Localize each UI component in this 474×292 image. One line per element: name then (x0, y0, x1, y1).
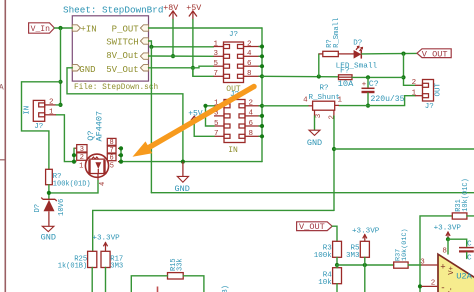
svg-text:A: A (0, 84, 4, 93)
wire R_Shunt pin3 to ground (314, 116, 316, 130)
node junctions on rail at OUT pins (260, 44, 264, 78)
svg-text:-: - (440, 283, 445, 292)
svg-text:2: 2 (412, 79, 417, 87)
svg-text:6: 6 (247, 60, 252, 68)
svg-text:R?: R? (320, 84, 329, 92)
node junction gate network (47, 191, 51, 195)
wire loop box right (183, 276, 204, 292)
svg-text:C: C (467, 254, 472, 262)
node junction R5 bottom (363, 263, 367, 267)
node junction cap bottom (366, 104, 370, 108)
svg-text:1: 1 (49, 109, 54, 117)
svg-text:10A: 10A (338, 79, 354, 89)
svg-text:V_OUT: V_OUT (422, 49, 448, 59)
node junction sense branch (332, 147, 336, 151)
node junction at V_In (58, 26, 62, 30)
node junction +5V on 5V_Out (191, 66, 195, 70)
svg-text:3M3: 3M3 (346, 252, 360, 260)
node junction at fuse rail (401, 75, 405, 79)
global label V_OUT top (417, 49, 451, 60)
resistor R3 100k (314, 241, 342, 265)
svg-text:+3.3VP: +3.3VP (352, 227, 380, 235)
svg-text:+3.3VP: +3.3VP (92, 235, 120, 243)
svg-text:3M3: 3M3 (110, 262, 123, 270)
svg-text:2: 2 (329, 115, 337, 120)
wire feedback vertical (420, 216, 452, 292)
svg-text:4: 4 (99, 182, 107, 186)
node junction +8V on 8V_Out (171, 54, 175, 58)
wire V_OUT to R3 (332, 226, 337, 241)
node junction R_Small branch (317, 74, 321, 78)
svg-text:2: 2 (80, 154, 84, 162)
wire drain rail bottom horizontal (121, 161, 262, 163)
resistor R5 3M3 (346, 241, 369, 265)
svg-text:7: 7 (214, 130, 219, 138)
svg-text:GND: GND (41, 233, 56, 243)
node junction V_In branch left (58, 80, 62, 84)
connector J? OUT (right edge) (412, 79, 443, 111)
wire OUT J pin2 (404, 84, 416, 86)
svg-text:IN: IN (228, 146, 238, 155)
connector J? OUT (upper) (213, 31, 259, 94)
svg-text:R_Shunt: R_Shunt (309, 94, 341, 102)
connector J? IN (lower) (214, 91, 260, 155)
ground symbol mid (175, 162, 190, 195)
wire fuse to cap node and onward (352, 76, 404, 78)
wire right rail vertical (261, 28, 263, 162)
wire R37 to op-amp pin3 (408, 264, 421, 266)
svg-text:2: 2 (431, 280, 436, 288)
wire sense rail to R25 (93, 210, 334, 251)
global label V_In (29, 23, 55, 34)
svg-text:+3.3VP: +3.3VP (434, 225, 462, 233)
svg-text:2: 2 (49, 99, 54, 107)
wire switch sense rail to right edge (151, 192, 474, 194)
svg-text:SWITCH: SWITCH (106, 37, 138, 47)
wire +5V to connector pin7 (193, 68, 214, 77)
connector J? IN (left edge) (24, 99, 57, 131)
wire transistor drain tie (120, 148, 122, 161)
power symbol +5V (186, 4, 201, 20)
resistor R? R_Small (319, 18, 354, 57)
component lead stub at bottom edge (157, 287, 159, 292)
wire divider node to R37 (337, 264, 394, 266)
wire left connector pin2 to V_In vertical (56, 104, 61, 106)
svg-text:C?: C? (369, 80, 379, 89)
op-amp U2A (420, 248, 474, 292)
wire R_Shunt pin2 sense down (333, 116, 335, 210)
wire wrap around connector to R gate resistor (22, 82, 61, 170)
sheet pin P_OUT (112, 24, 149, 34)
global label V_OUT bottom (297, 222, 333, 232)
wire V_In vertical down (60, 28, 62, 105)
wire 8V_Out to connector pin3 (149, 55, 214, 57)
ground symbol below R_Shunt (307, 130, 322, 148)
svg-text:IN: IN (24, 106, 32, 115)
node junctions transistor left (72, 153, 76, 157)
svg-text:3: 3 (213, 50, 218, 58)
svg-text:5: 5 (213, 60, 218, 68)
svg-text:5V_Out: 5V_Out (106, 65, 138, 75)
svg-text:D?: D? (34, 204, 42, 213)
resistor R? R_Shunt (303, 84, 342, 119)
wire V+ to decoupling cap (448, 239, 467, 246)
wire transistor source tie (73, 148, 75, 161)
svg-text:U2A: U2A (456, 272, 472, 282)
resistor R? 100k(01D) (46, 169, 91, 188)
wire stubs IN connector right to rail (259, 106, 262, 137)
svg-text:Sheet: StepDownBrd: Sheet: StepDownBrd (63, 4, 163, 15)
svg-text:3: 3 (315, 113, 323, 118)
svg-text:R_Small: R_Small (333, 18, 341, 48)
power symbol +8V (163, 4, 178, 20)
svg-text:10k(01C): 10k(01C) (462, 178, 470, 212)
wire SWITCH sense line down (150, 47, 152, 193)
svg-text:3: 3 (80, 146, 84, 154)
svg-text:P_OUT: P_OUT (112, 24, 140, 34)
fuse F? 10A (338, 67, 354, 89)
power symbol +3.3VP mid (352, 227, 380, 241)
annotation arrow orange (133, 87, 255, 157)
wire bottom rail to OUT J pin1 (339, 96, 415, 106)
resistor R15 33k (168, 258, 185, 279)
transistor Q1 AF4407 (74, 111, 121, 186)
resistor R4 10k (318, 265, 341, 292)
svg-text:100k(01D): 100k(01D) (53, 181, 91, 189)
wire P_OUT to right rail (149, 27, 263, 29)
svg-text:V_In: V_In (31, 25, 51, 34)
wire R? bottom to node (48, 185, 50, 200)
sheet pin GND (72, 65, 95, 76)
sheet pin 5V_Out (106, 65, 148, 76)
node junction at left connector pin2 (58, 103, 62, 107)
power label +5V mid (188, 109, 203, 120)
ground symbol below zener (41, 226, 56, 242)
svg-text:4: 4 (249, 110, 254, 118)
svg-text:AF4407: AF4407 (95, 111, 105, 142)
svg-text:5: 5 (110, 163, 114, 171)
wire left connector pin1 down to transistor (56, 115, 74, 162)
svg-text:+: + (440, 262, 445, 272)
wire V_In to sheet +IN (54, 27, 72, 29)
svg-text:1: 1 (213, 40, 218, 48)
svg-text:6: 6 (249, 120, 254, 128)
svg-text:2: 2 (249, 100, 254, 108)
capacitor C? 220u/35 (362, 77, 405, 105)
svg-text:J?: J? (34, 123, 43, 131)
svg-text:8V_Out: 8V_Out (106, 51, 138, 61)
hierarchical sheet StepDownBrd (63, 4, 163, 92)
sheet pin +IN (72, 24, 96, 34)
svg-text:8: 8 (249, 130, 254, 138)
node junction op-amp V+ (446, 237, 450, 241)
svg-text:8: 8 (247, 70, 252, 78)
wire rail to R_Shunt pin4 (262, 105, 308, 107)
svg-text:(B): (B) (222, 285, 230, 292)
svg-text:5: 5 (214, 120, 219, 128)
svg-text:J?: J? (229, 31, 238, 39)
svg-text:V-: V- (448, 287, 456, 292)
svg-text:V+: V+ (448, 266, 456, 275)
svg-text:8: 8 (442, 248, 447, 256)
svg-text:C: C (467, 241, 472, 249)
svg-text:V_OUT: V_OUT (299, 222, 325, 232)
svg-text:10V6: 10V6 (58, 199, 66, 216)
capacitor C? decoupling (459, 241, 474, 263)
svg-text:7: 7 (213, 70, 218, 78)
sheet pin SWITCH (106, 37, 148, 47)
wire pin8 row to fuse branch (262, 75, 339, 78)
sheet pin 8V_Out (106, 51, 148, 61)
svg-text:33k: 33k (176, 258, 184, 271)
svg-text:6: 6 (109, 155, 113, 163)
node junction V_OUT column (401, 52, 405, 56)
node junction op-amp pin2 (418, 284, 422, 288)
wire LED to V_OUT node (362, 52, 417, 55)
svg-text:F?: F? (340, 67, 350, 76)
wire +8V drop to 8V_Out (172, 20, 174, 57)
wire V_OUT column down (403, 54, 405, 86)
svg-text:+IN: +IN (81, 24, 97, 34)
node junction SWITCH branch (149, 45, 153, 49)
wire +5V drop (192, 20, 194, 77)
wire +5V to IN pin7 (194, 120, 214, 136)
wire 5V_Out to connector pin5 (149, 66, 214, 68)
svg-text:OUT: OUT (434, 82, 442, 96)
svg-text:100k: 100k (314, 252, 333, 260)
resistor R25 1k(01B) (58, 251, 97, 292)
power symbol +3.3VP left (92, 235, 120, 252)
wire SWITCH jog (149, 41, 214, 47)
svg-text:2: 2 (247, 40, 252, 48)
svg-text:1: 1 (338, 97, 343, 105)
resistor R31 10k(01C) (452, 178, 474, 219)
LED D? LED_Small (336, 39, 378, 70)
wire below node off bottom (364, 265, 366, 292)
node junctions on rail at IN pins (260, 104, 264, 139)
svg-text:+: + (362, 81, 367, 89)
node junctions transistor right (119, 146, 123, 150)
svg-text:J?: J? (425, 103, 434, 111)
svg-text:220u/35: 220u/35 (371, 95, 405, 104)
wire sense line to right edge (334, 148, 474, 150)
wire gate down to resistor node (49, 181, 98, 193)
zener diode D? 10V6 (34, 198, 66, 226)
svg-text:1: 1 (79, 162, 83, 170)
svg-text:GND: GND (307, 138, 322, 148)
svg-text:10k(01C): 10k(01C) (401, 228, 409, 261)
power symbol +3.3VP right (434, 225, 462, 240)
svg-text:1: 1 (412, 89, 417, 97)
svg-text:1k(01B): 1k(01B) (58, 262, 87, 270)
svg-text:4: 4 (247, 50, 252, 58)
wire IN pin1 to pin5 tie (206, 106, 215, 126)
resistor R17 3M3 (101, 251, 123, 292)
node junction cap top (366, 75, 370, 79)
node junction GND tap on drain rail (181, 160, 185, 164)
resistor R37 10k(01C) (394, 228, 410, 268)
svg-text:4: 4 (303, 97, 308, 105)
wire up to R_Small (318, 54, 320, 77)
svg-text:10k: 10k (318, 279, 332, 287)
svg-text:GND: GND (79, 65, 95, 75)
svg-text:D?: D? (353, 39, 362, 47)
wire stubs OUT connector right to rail (259, 47, 262, 77)
frame border left edge (0, 0, 5, 292)
svg-text:+8V: +8V (163, 4, 178, 13)
wire GND sheet pin routing (67, 68, 183, 162)
wire V+ to op-amp pin8 (447, 239, 449, 254)
svg-text:3: 3 (420, 258, 425, 266)
node junction IN pin1 (203, 104, 207, 108)
wire loop box bottom center (131, 276, 167, 292)
svg-text:File: StepDown.sch: File: StepDown.sch (74, 84, 158, 92)
node junction divider (335, 263, 339, 267)
